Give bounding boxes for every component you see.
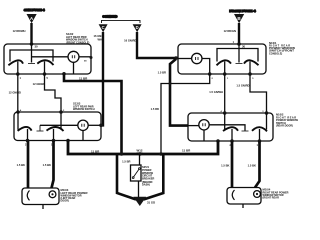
- S13/2 contact arc right: [37, 60, 53, 65]
- S13/2 terminal stub 2: [44, 62, 46, 75]
- S13/2 center contact tick: [28, 63, 35, 65]
- lamp right lead down: [202, 59, 210, 75]
- bracket: [102, 20, 141, 23]
- svg-text:1.5 GN/RD: 1.5 GN/RD: [236, 84, 249, 88]
- N10 terminal stub 1: [224, 62, 226, 75]
- circuit breaker drop wire: [139, 154, 141, 165]
- svg-text:1.5 RD: 1.5 RD: [151, 107, 159, 111]
- ground bus nodes: [120, 152, 124, 156]
- S13/3 motor terminal stubs: [27, 129, 29, 141]
- svg-text:12 GN/BK: 12 GN/BK: [33, 82, 45, 86]
- S13/3 top terminal nodes: [16, 110, 20, 114]
- switch S13/3 label: [73, 101, 95, 111]
- N10/2 bottom nodes: [216, 139, 220, 143]
- motor M10/4 label: [263, 187, 289, 199]
- wire N10 pin to N10/2 straight: [224, 74, 226, 113]
- N10/2 lamp left lead: [188, 125, 199, 127]
- M10/3 brush arc: [27, 191, 29, 201]
- connector triangle C: [99, 24, 108, 32]
- svg-text:1.5 BK: 1.5 BK: [43, 163, 51, 167]
- wire D down and right: [137, 32, 178, 58]
- switch S13/2 label: [66, 32, 89, 45]
- svg-text:2: 2: [212, 78, 214, 80]
- switch N10/2 box (bottom-right): [188, 113, 273, 141]
- breaker to ground wire: [138, 181, 140, 197]
- N10 internal feed: [238, 44, 240, 63]
- motor wire N10/2 right: [255, 141, 260, 188]
- svg-text:11 BR: 11 BR: [79, 77, 88, 81]
- motor wire S13/3 right: [52, 141, 54, 189]
- ground V wire right: [144, 154, 164, 200]
- svg-text:DASH): DASH): [142, 184, 150, 187]
- svg-text:CONTINUED: CONTINUED: [103, 16, 118, 19]
- N10 bracket: [217, 49, 258, 62]
- N10 contact arc right: [244, 60, 259, 65]
- svg-text:(RIGHT REAR: (RIGHT REAR: [263, 197, 280, 200]
- wire S13/2 pin1 to S13/3: [17, 74, 19, 112]
- switch S13/2 box (top-left): [4, 44, 91, 74]
- svg-text:1: 1: [227, 78, 229, 80]
- svg-text:5: 5: [47, 77, 49, 80]
- lamp right lead: [79, 56, 91, 58]
- motor wire S13/3 left: [27, 141, 30, 189]
- ground symbol: [133, 197, 146, 206]
- S13/2 bracket: [10, 50, 53, 62]
- connector triangle A: [27, 14, 37, 23]
- svg-text:58: 58: [84, 60, 87, 62]
- S13/3 lamp line: [40, 124, 78, 126]
- S13/2 lamp feed line: [32, 56, 69, 58]
- svg-text:16 GN/RD: 16 GN/RD: [124, 38, 136, 42]
- svg-text:31 GD: 31 GD: [147, 201, 155, 205]
- svg-text:12 GN/RD: 12 GN/RD: [9, 90, 21, 94]
- M10/3 bottom stub: [42, 205, 44, 210]
- N10 contact arc left: [217, 60, 232, 65]
- lamp ground stub: [82, 131, 84, 141]
- motor M10/4 box: [227, 188, 261, 205]
- N10/2 feeds: [224, 113, 226, 130]
- N10/2 contact arc right: [252, 127, 267, 131]
- N10/2 lamp line right: [209, 125, 245, 131]
- S13/2 bottom terminal nodes: [16, 72, 20, 76]
- M10/4 brush arc: [232, 190, 234, 200]
- svg-text:11 BR: 11 BR: [182, 149, 191, 153]
- N10 bottom terminal nodes: [208, 72, 212, 76]
- motor wire N10/2 left: [231, 141, 234, 188]
- svg-text:WH: WH: [98, 37, 103, 41]
- S13/3 center contact: [39, 125, 41, 131]
- S13/3 feeds: [17, 112, 19, 130]
- N10/2 top terminal nodes: [223, 111, 227, 115]
- S13/3 contact arc right: [47, 127, 64, 131]
- junction D to N10: [174, 56, 178, 60]
- pin numbers under S13/2: [20, 77, 66, 80]
- svg-text:1: 1: [20, 77, 22, 80]
- M10/3 commutator circle: [49, 191, 56, 198]
- N10/2 motor terminal stubs: [231, 129, 233, 141]
- svg-text:C: C: [102, 25, 105, 30]
- S13/2 internal feed: [31, 44, 33, 63]
- svg-text:30: 30: [35, 45, 39, 49]
- svg-text:1.5 BK: 1.5 BK: [17, 163, 25, 167]
- node 30 right: [237, 42, 241, 46]
- breaker label: [142, 165, 155, 187]
- motor M10/3 label: [61, 188, 88, 203]
- M10/4 commutator circle: [254, 191, 261, 198]
- ground V wire left: [117, 154, 136, 200]
- pin numbers above S13/3: [20, 109, 65, 112]
- switch N10 box (top-right): [178, 44, 266, 74]
- svg-text:FROM FUSE 4: FROM FUSE 4: [230, 9, 256, 13]
- svg-text:SEE FUSE 4: SEE FUSE 4: [24, 8, 45, 12]
- node 30 left: [30, 42, 34, 46]
- S13/2 terminal stub 1: [17, 62, 19, 75]
- wire A from fuse: [30, 23, 32, 44]
- heavy wire 11 BR from S13/2: [64, 74, 122, 154]
- N10 center contact tick: [236, 63, 243, 65]
- S13/3 contact arc left: [18, 127, 32, 131]
- svg-text:12 RD/GN: 12 RD/GN: [224, 29, 236, 33]
- S13/2 contact arc left: [8, 60, 23, 65]
- svg-text:1.5 BK: 1.5 BK: [221, 163, 229, 167]
- switch N10 label: [269, 41, 296, 56]
- connector triangle B: [234, 14, 244, 23]
- lamp right lead: [88, 124, 101, 126]
- svg-text:11 BR: 11 BR: [91, 150, 100, 154]
- N10 lamp feed from left edge: [178, 58, 192, 60]
- svg-text:5: 5: [252, 78, 254, 80]
- pin numbers under N10: [212, 78, 255, 80]
- wire B from fuse: [238, 23, 240, 44]
- svg-text:W12: W12: [137, 148, 143, 152]
- svg-text:1.5 GN/WH: 1.5 GN/WH: [209, 90, 223, 94]
- S13/3 bottom nodes: [26, 139, 30, 143]
- motor M10/3 box: [22, 188, 59, 205]
- wire N10 pin jog to N10/2: [250, 74, 267, 113]
- svg-text:CONSOLE): CONSOLE): [269, 52, 282, 55]
- svg-text:12 RD/WH: 12 RD/WH: [13, 29, 26, 33]
- svg-text:(FRONT CONSOLE): (FRONT CONSOLE): [66, 41, 89, 44]
- N10/2 contact arc left: [223, 127, 238, 131]
- svg-text:WINDOW SWITCH: WINDOW SWITCH: [73, 108, 95, 111]
- wire S13/2 pin5 jog to S13/3: [45, 74, 62, 112]
- N10 terminal stub 2: [249, 62, 251, 75]
- node C wire at S13/3: [99, 124, 103, 128]
- lamp S13/3: [78, 120, 88, 130]
- branch wire to ground bus: [161, 74, 210, 154]
- connector triangle D: [133, 24, 142, 32]
- svg-text:DOOR): DOOR): [61, 200, 70, 203]
- N10/2 lamp ground stub: [203, 130, 205, 141]
- pin numbers under N10/2: [230, 144, 259, 147]
- svg-text:D: D: [136, 25, 139, 30]
- pin numbers under S13/3: [25, 144, 53, 147]
- switch N10/2 label: [276, 113, 299, 128]
- svg-text:1.5 BK: 1.5 BK: [248, 163, 256, 167]
- breaker symbol: [133, 169, 139, 178]
- lamp S13/2: [68, 51, 79, 62]
- lamp N10/2: [199, 120, 209, 130]
- svg-text:1.5 BR: 1.5 BR: [158, 71, 166, 75]
- M10/4 bottom stub: [242, 204, 244, 208]
- switch S13/3 box (bottom-left): [14, 112, 101, 141]
- heavy ground wire from N10 area: [170, 59, 188, 126]
- ground wire from S13/3: [68, 141, 218, 155]
- svg-text:(REAR DOOR): (REAR DOOR): [276, 124, 293, 127]
- pin numbers above N10/2: [221, 110, 265, 113]
- lamp N10: [192, 53, 202, 63]
- wire C down: [101, 32, 103, 125]
- circuit breaker S25 box: [131, 165, 142, 181]
- svg-text:1.5 BR: 1.5 BR: [122, 159, 130, 163]
- lamp ground stub: [73, 62, 75, 74]
